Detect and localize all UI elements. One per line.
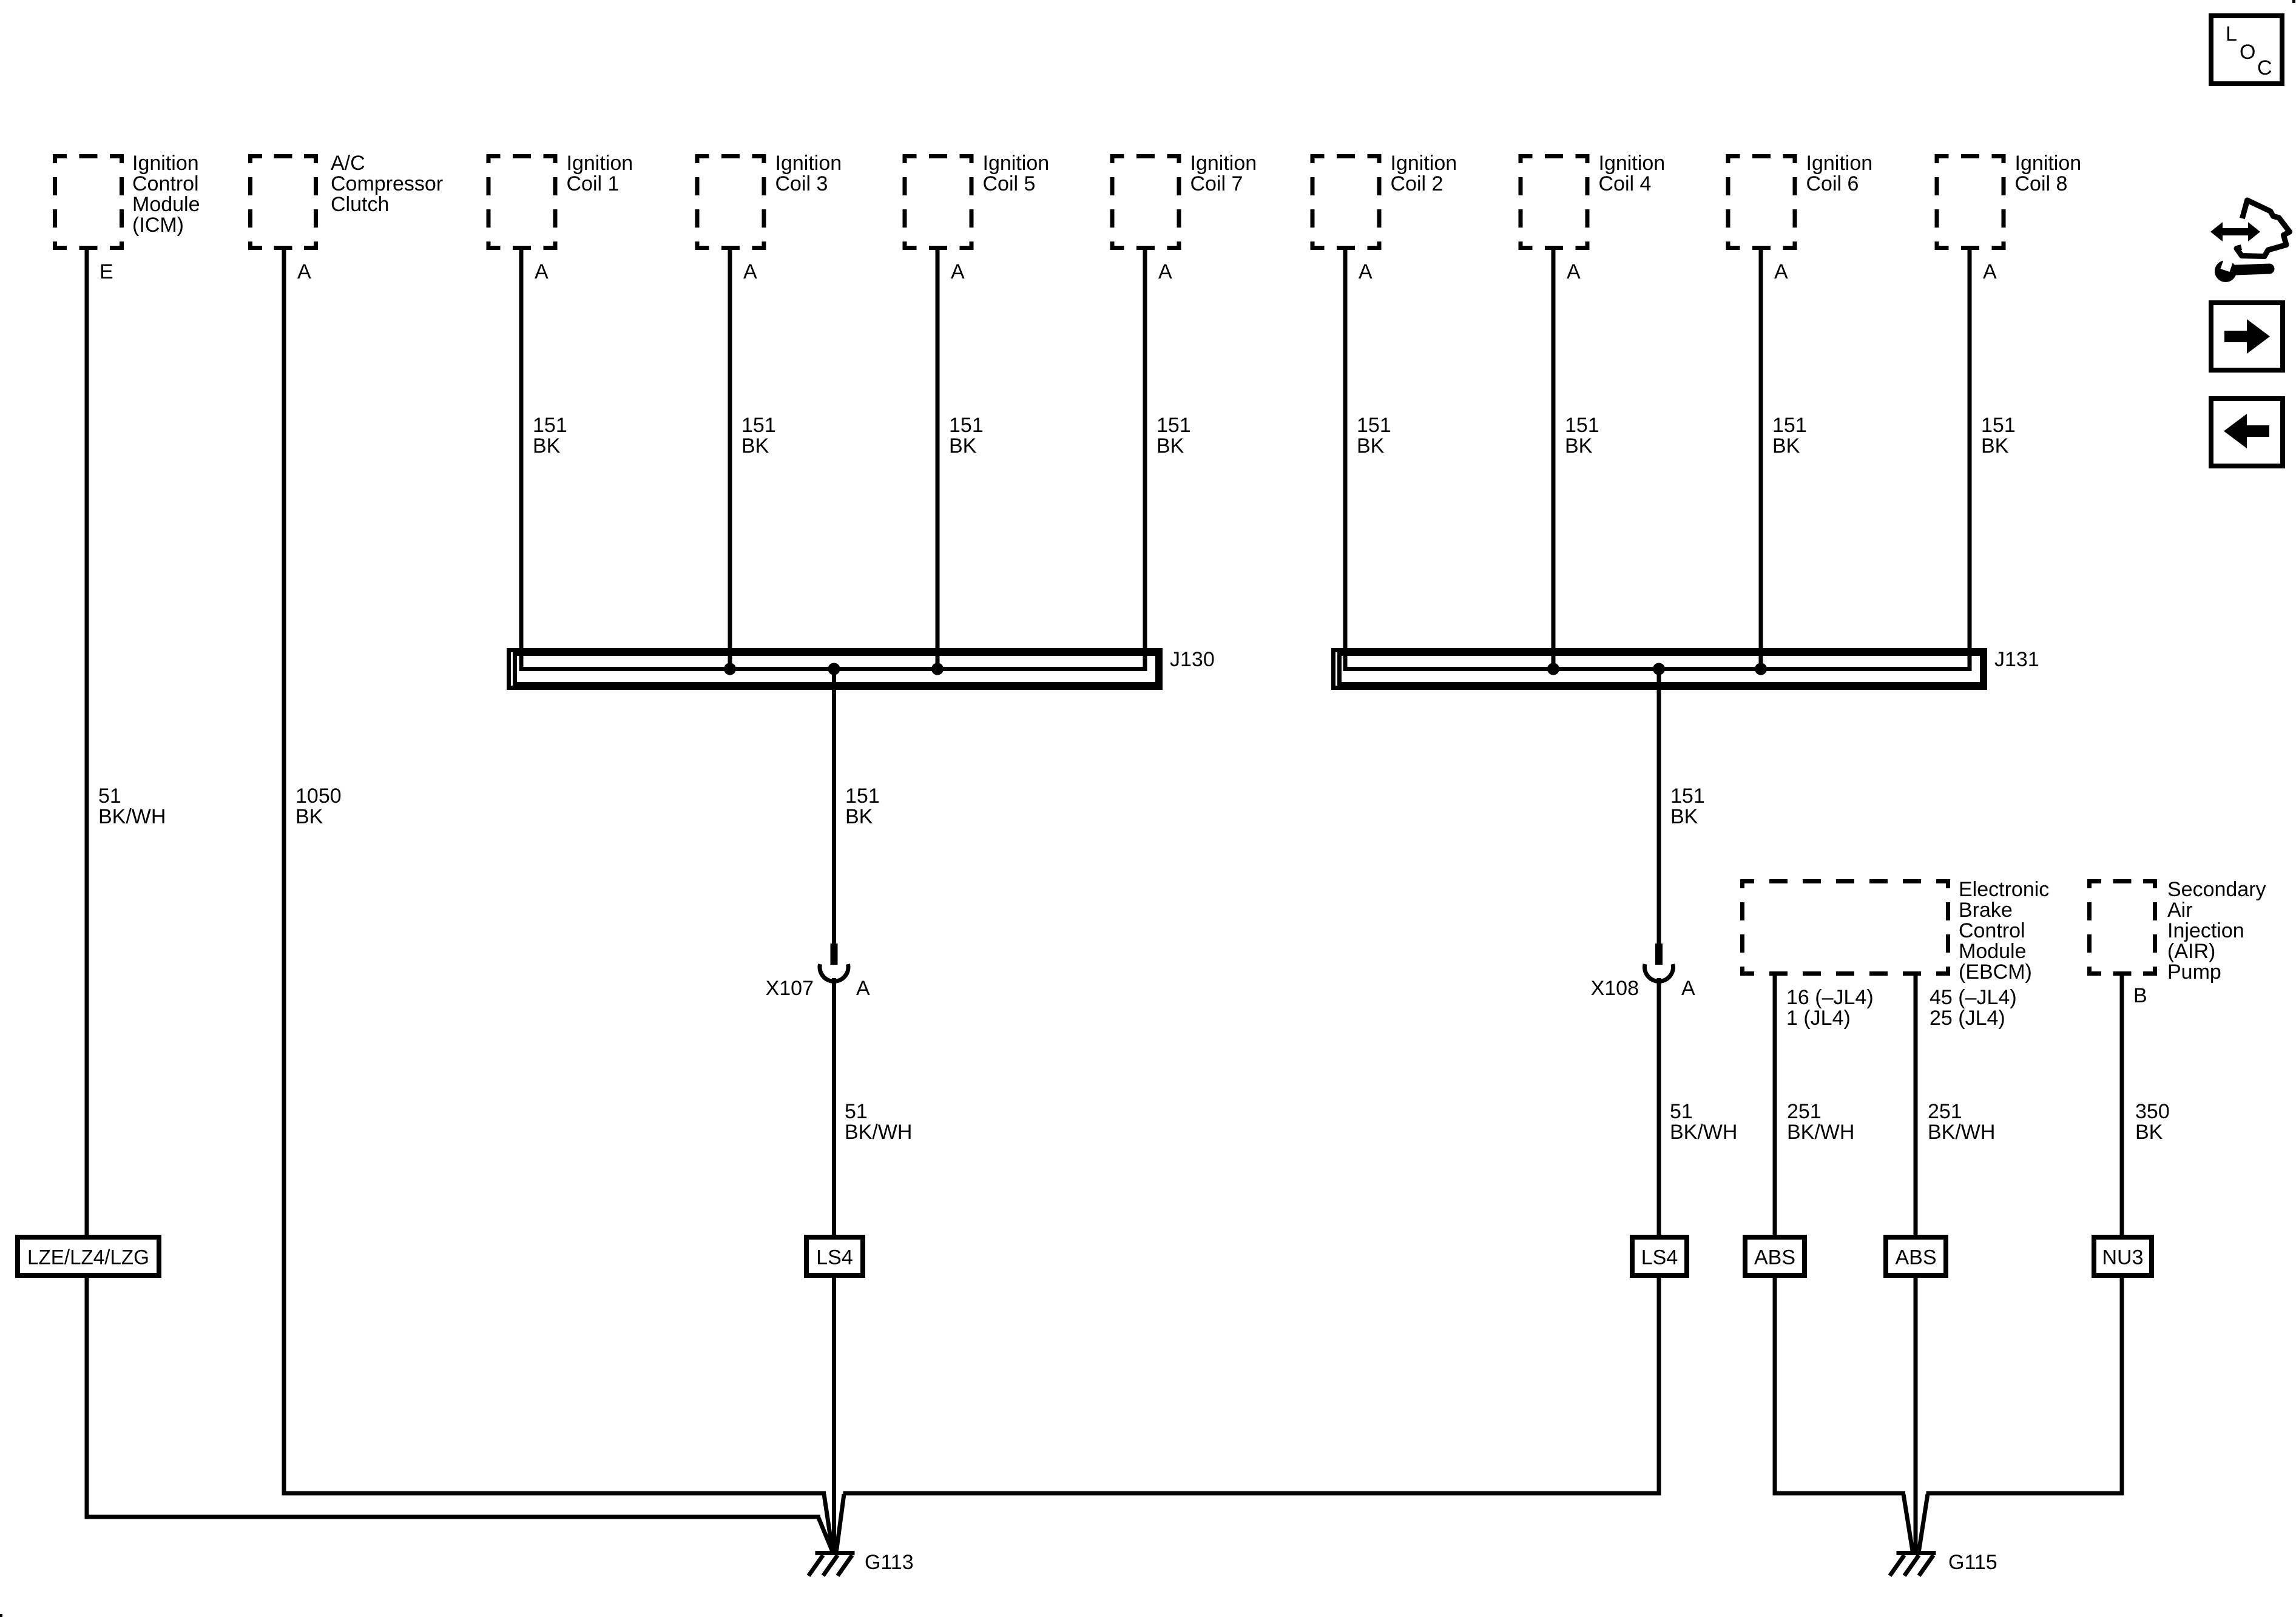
label: Ignition Coil 8 — [2015, 152, 2082, 195]
svg-text:51: 51 — [98, 785, 121, 808]
svg-text:(EBCM): (EBCM) — [1959, 960, 2032, 984]
option code box ABS (right) — [1886, 1237, 1946, 1275]
svg-text:ABS: ABS — [1754, 1246, 1795, 1269]
pin A of ignition coil 6 — [1774, 260, 1788, 283]
engine code box LZE/LZ4/LZG — [18, 1237, 159, 1275]
svg-text:X107: X107 — [766, 977, 814, 1000]
svg-text:LZE/LZ4/LZG: LZE/LZ4/LZG — [27, 1246, 149, 1269]
connector box: Ignition Coil 5 — [903, 154, 974, 250]
value label: 151 BK (J131 output) — [1670, 785, 1705, 828]
svg-text:Secondary: Secondary — [2167, 878, 2266, 901]
svg-text:151: 151 — [1357, 414, 1391, 437]
ground distribution bus J130 — [509, 650, 1161, 688]
svg-text:G115: G115 — [1948, 1551, 1997, 1574]
pin A of ignition coil 4 — [1567, 260, 1581, 283]
value label: 151 BK (coil 3 wire) — [741, 414, 776, 457]
svg-text:J130: J130 — [1170, 648, 1215, 671]
svg-text:Electronic: Electronic — [1959, 878, 2049, 901]
pin A of ignition coil 8 — [1983, 260, 1997, 283]
value label: 151 BK (coil 5 wire) — [949, 414, 984, 457]
wire: ICM pin E, circuit 51 BK/WH (drop) — [85, 247, 89, 1519]
svg-text:Coil 8: Coil 8 — [2015, 172, 2068, 195]
label: G113 — [865, 1551, 914, 1574]
svg-text:151: 151 — [1670, 785, 1705, 808]
value label: 251 BK/WH (EBCM left) — [1787, 1100, 1854, 1144]
svg-text:BK: BK — [1772, 434, 1800, 457]
svg-text:BK: BK — [295, 805, 323, 828]
svg-text:1 (JL4): 1 (JL4) — [1786, 1007, 1851, 1030]
svg-text:LS4: LS4 — [816, 1246, 853, 1269]
svg-text:45 (–JL4): 45 (–JL4) — [1930, 986, 2017, 1009]
engine code box LS4 (right) — [1632, 1237, 1687, 1275]
svg-text:350: 350 — [2135, 1100, 2170, 1123]
svg-text:151: 151 — [845, 785, 880, 808]
svg-text:A: A — [1567, 260, 1581, 283]
label: J131 — [1994, 648, 2039, 671]
svg-text:Ignition: Ignition — [983, 152, 1050, 175]
wire: X107 to LS4 to G113, circuit 51 BK/WH — [832, 978, 836, 1551]
page artifact: bottom-left dot — [0, 1614, 2, 1617]
connector box: Ignition Coil 8 — [1935, 154, 2006, 250]
svg-text:251: 251 — [1787, 1100, 1822, 1123]
label: Ignition Coil 5 — [983, 152, 1050, 195]
svg-text:ABS: ABS — [1895, 1246, 1936, 1269]
svg-text:Ignition: Ignition — [1599, 152, 1666, 175]
wire: EBCM pin 45/25, circuit 251 BK/WH to G115 (stem) — [1914, 973, 1918, 1551]
icon: LOC reference box — [2211, 16, 2282, 84]
value label: 1050 BK (A/C wire) — [295, 785, 342, 828]
wire: ICM run to G113 (horizontal) — [85, 1515, 821, 1519]
svg-text:51: 51 — [845, 1100, 868, 1123]
wire: ignition coil 2 pin A, circuit 151 BK — [1343, 247, 1348, 671]
svg-text:Module: Module — [1959, 940, 2027, 963]
svg-text:51: 51 — [1670, 1100, 1693, 1123]
svg-text:251: 251 — [1928, 1100, 1962, 1123]
value label: 151 BK (J130 output) — [845, 785, 880, 828]
svg-text:Clutch: Clutch — [331, 193, 389, 216]
connector box: Secondary Air Injection (AIR) Pump — [2087, 879, 2157, 976]
svg-text:NU3: NU3 — [2102, 1246, 2143, 1269]
svg-text:16 (–JL4): 16 (–JL4) — [1786, 986, 1874, 1009]
svg-text:L: L — [2226, 22, 2237, 46]
value label: 151 BK (coil 8 wire) — [1981, 414, 2016, 457]
svg-text:BK: BK — [533, 434, 561, 457]
label: Ignition Coil 6 — [1806, 152, 1873, 195]
label: Ignition Coil 2 — [1391, 152, 1457, 195]
junction: coil 4 wire on J131 bus — [1547, 663, 1559, 675]
page artifact: top-right dot — [2292, 0, 2295, 3]
svg-text:A: A — [951, 260, 965, 283]
junction: coil 3 wire on J130 bus — [724, 663, 736, 675]
svg-text:Coil 7: Coil 7 — [1190, 172, 1243, 195]
svg-text:Control: Control — [1959, 919, 2025, 942]
svg-text:O: O — [2240, 41, 2255, 64]
connector box: Ignition Coil 7 — [1110, 154, 1181, 250]
svg-text:Ignition: Ignition — [567, 152, 633, 175]
svg-text:(ICM): (ICM) — [132, 214, 184, 237]
svg-text:BK/WH: BK/WH — [1928, 1121, 1995, 1144]
svg-text:151: 151 — [741, 414, 776, 437]
svg-text:Coil 3: Coil 3 — [775, 172, 828, 195]
pin label: EBCM 16 (-JL4) / 1 (JL4) — [1786, 986, 1874, 1030]
wire: ICM diagonal into G113 — [819, 1518, 832, 1551]
svg-text:Coil 6: Coil 6 — [1806, 172, 1859, 195]
icon: forward arrow box — [2211, 303, 2283, 370]
junction: J131 output on bus — [1653, 663, 1665, 675]
ground G115 — [1890, 1553, 1936, 1576]
value label: 51 BK/WH (below X108) — [1670, 1100, 1737, 1144]
pin E of ICM — [100, 260, 113, 283]
svg-text:Injection: Injection — [2167, 919, 2244, 942]
icon: back arrow box — [2211, 399, 2283, 466]
wire: AIR pump run to G115 (horizontal) — [1926, 1491, 2124, 1496]
svg-text:151: 151 — [1981, 414, 2016, 437]
wire: ignition coil 4 pin A, circuit 151 BK — [1551, 247, 1556, 671]
wire: X108 to LS4 drop, circuit 51 BK/WH — [1657, 978, 1661, 1496]
svg-text:E: E — [100, 260, 113, 283]
svg-text:BK: BK — [1981, 434, 2009, 457]
label: J130 — [1170, 648, 1215, 671]
wire: ignition coil 3 pin A, circuit 151 BK — [728, 247, 732, 671]
wire: ignition coil 5 pin A, circuit 151 BK — [936, 247, 940, 671]
pin A of ignition coil 3 — [743, 260, 757, 283]
label: Ignition Coil 7 — [1190, 152, 1257, 195]
pin A of ignition coil 7 — [1158, 260, 1172, 283]
label: Electronic Brake Control Module (EBCM) — [1959, 878, 2049, 984]
bus wire inside J131 — [1345, 667, 1970, 671]
svg-text:Ignition: Ignition — [1190, 152, 1257, 175]
label: Ignition Control Module (ICM) — [132, 152, 200, 237]
value label: 151 BK (coil 1 wire) — [533, 414, 567, 457]
label: Ignition Coil 4 — [1599, 152, 1666, 195]
svg-text:A: A — [1983, 260, 1997, 283]
wire: ignition coil 8 pin A, circuit 151 BK — [1968, 247, 1972, 671]
connector box: Ignition Coil 1 — [487, 154, 558, 250]
svg-text:LS4: LS4 — [1641, 1246, 1678, 1269]
value label: 151 BK (coil 4 wire) — [1565, 414, 1599, 457]
wire: LS4 right run to G113 (horizontal) — [843, 1491, 1661, 1496]
wire: A/C clutch diagonal into G113 — [824, 1494, 832, 1551]
wire: LS4 right diagonal into G113 — [837, 1494, 845, 1551]
ground distribution bus J131 — [1334, 650, 1985, 688]
wire: EBCM pin 16/1 diagonal into G115 — [1903, 1494, 1913, 1551]
wire: A/C compressor clutch pin A, circuit 1050 BK (drop) — [282, 247, 286, 1496]
svg-text:Control: Control — [132, 172, 199, 195]
terminal A of X107 — [856, 977, 870, 1000]
wire: ignition coil 6 pin A, circuit 151 BK — [1759, 247, 1763, 671]
svg-text:25 (JL4): 25 (JL4) — [1930, 1007, 2005, 1030]
svg-text:151: 151 — [1565, 414, 1599, 437]
svg-text:A: A — [535, 260, 549, 283]
svg-text:BK: BK — [741, 434, 769, 457]
svg-text:BK: BK — [2135, 1121, 2163, 1144]
svg-text:151: 151 — [1772, 414, 1807, 437]
svg-text:Compressor: Compressor — [331, 172, 443, 195]
wire: ignition coil 1 pin A, circuit 151 BK — [519, 247, 524, 671]
connector X107 (in-line) — [820, 944, 848, 981]
wire: EBCM pin 16/1, circuit 251 BK/WH (drop) — [1773, 973, 1777, 1496]
svg-text:A/C: A/C — [331, 152, 365, 175]
wire: ignition coil 7 pin A, circuit 151 BK — [1143, 247, 1147, 671]
pin A of ignition coil 1 — [535, 260, 549, 283]
option code box ABS (left) — [1745, 1237, 1805, 1275]
svg-text:G113: G113 — [865, 1551, 914, 1574]
terminal A of X108 — [1681, 977, 1695, 1000]
wire: EBCM pin 16/1 run to G115 (horizontal) — [1773, 1491, 1906, 1496]
wire: J130 output, circuit 151 BK (above X107) — [832, 669, 836, 945]
svg-text:BK: BK — [1565, 434, 1593, 457]
svg-text:A: A — [1359, 260, 1373, 283]
svg-text:C: C — [2257, 56, 2272, 79]
svg-text:Ignition: Ignition — [775, 152, 842, 175]
label: Secondary Air Injection (AIR) Pump — [2167, 878, 2266, 984]
option code box NU3 — [2094, 1237, 2152, 1275]
icon: diagnostic pointer with wrench — [2210, 200, 2290, 282]
connector box: Ignition Coil 4 — [1519, 154, 1590, 250]
svg-text:X108: X108 — [1591, 977, 1639, 1000]
svg-text:BK/WH: BK/WH — [98, 805, 166, 828]
connector box: A/C Compressor Clutch — [248, 154, 318, 250]
svg-text:BK: BK — [1156, 434, 1184, 457]
pin B of AIR pump — [2133, 984, 2147, 1007]
junction: J130 output on bus — [828, 663, 840, 675]
svg-text:A: A — [1681, 977, 1695, 1000]
pin A of ignition coil 2 — [1359, 260, 1373, 283]
svg-text:A: A — [743, 260, 757, 283]
svg-text:A: A — [856, 977, 870, 1000]
value label: 350 BK (AIR pump) — [2135, 1100, 2170, 1144]
label: Ignition Coil 1 — [567, 152, 633, 195]
svg-text:BK/WH: BK/WH — [1787, 1121, 1854, 1144]
svg-text:B: B — [2133, 984, 2147, 1007]
svg-text:1050: 1050 — [295, 785, 342, 808]
svg-text:A: A — [1774, 260, 1788, 283]
value label: 151 BK (coil 6 wire) — [1772, 414, 1807, 457]
bus wire inside J130 — [521, 667, 1147, 671]
label: connector X107 — [766, 977, 814, 1000]
connector box: Ignition Coil 3 — [695, 154, 766, 250]
wire: J131 output, circuit 151 BK (above X108) — [1657, 669, 1661, 945]
value label: 51 BK/WH (below X107) — [845, 1100, 912, 1144]
label: G115 — [1948, 1551, 1997, 1574]
pin label: EBCM 45 (-JL4) / 25 (JL4) — [1930, 986, 2017, 1030]
value label: 151 BK (coil 2 wire) — [1357, 414, 1391, 457]
svg-text:BK/WH: BK/WH — [1670, 1121, 1737, 1144]
wire: AIR pump pin B, circuit 350 BK (drop) — [2120, 973, 2124, 1496]
svg-text:Module: Module — [132, 193, 200, 216]
svg-text:Pump: Pump — [2167, 960, 2221, 984]
svg-text:151: 151 — [949, 414, 984, 437]
svg-text:(AIR): (AIR) — [2167, 940, 2215, 963]
svg-text:151: 151 — [1156, 414, 1191, 437]
value label: 51 BK/WH (ICM wire) — [98, 785, 166, 828]
junction: coil 6 wire on J131 bus — [1755, 663, 1767, 675]
svg-text:BK: BK — [949, 434, 977, 457]
svg-text:Ignition: Ignition — [132, 152, 199, 175]
label: connector X108 — [1591, 977, 1639, 1000]
svg-text:BK/WH: BK/WH — [845, 1121, 912, 1144]
svg-text:Ignition: Ignition — [1391, 152, 1457, 175]
label: Ignition Coil 3 — [775, 152, 842, 195]
wire: A/C clutch run to G113 (horizontal) — [282, 1491, 826, 1496]
svg-text:Coil 5: Coil 5 — [983, 172, 1036, 195]
svg-text:151: 151 — [533, 414, 567, 437]
connector box: Electronic Brake Control Module (EBCM) — [1740, 879, 1950, 976]
junction: coil 5 wire on J130 bus — [931, 663, 944, 675]
value label: 151 BK (coil 7 wire) — [1156, 414, 1191, 457]
svg-text:A: A — [1158, 260, 1172, 283]
ground G113 — [809, 1553, 855, 1576]
pin A of A/C clutch — [297, 260, 311, 283]
engine code box LS4 (left) — [806, 1237, 863, 1275]
connector box: Ignition Coil 2 — [1311, 154, 1382, 250]
svg-text:Ignition: Ignition — [1806, 152, 1873, 175]
connector X108 (in-line) — [1645, 944, 1673, 981]
svg-text:Coil 4: Coil 4 — [1599, 172, 1652, 195]
svg-text:Air: Air — [2167, 899, 2193, 922]
svg-text:Coil 1: Coil 1 — [567, 172, 620, 195]
svg-text:Coil 2: Coil 2 — [1391, 172, 1443, 195]
svg-text:A: A — [297, 260, 311, 283]
pin A of ignition coil 5 — [951, 260, 965, 283]
svg-text:Ignition: Ignition — [2015, 152, 2082, 175]
svg-text:J131: J131 — [1994, 648, 2039, 671]
connector box: Ignition Control Module (ICM) — [53, 154, 124, 250]
svg-text:BK: BK — [1357, 434, 1385, 457]
svg-text:BK: BK — [1670, 805, 1698, 828]
value label: 251 BK/WH (EBCM right) — [1928, 1100, 1995, 1144]
wire: AIR pump diagonal into G115 — [1919, 1494, 1928, 1551]
svg-text:Brake: Brake — [1959, 899, 2013, 922]
connector box: Ignition Coil 6 — [1726, 154, 1797, 250]
label: A/C Compressor Clutch — [331, 152, 443, 216]
svg-text:BK: BK — [845, 805, 873, 828]
